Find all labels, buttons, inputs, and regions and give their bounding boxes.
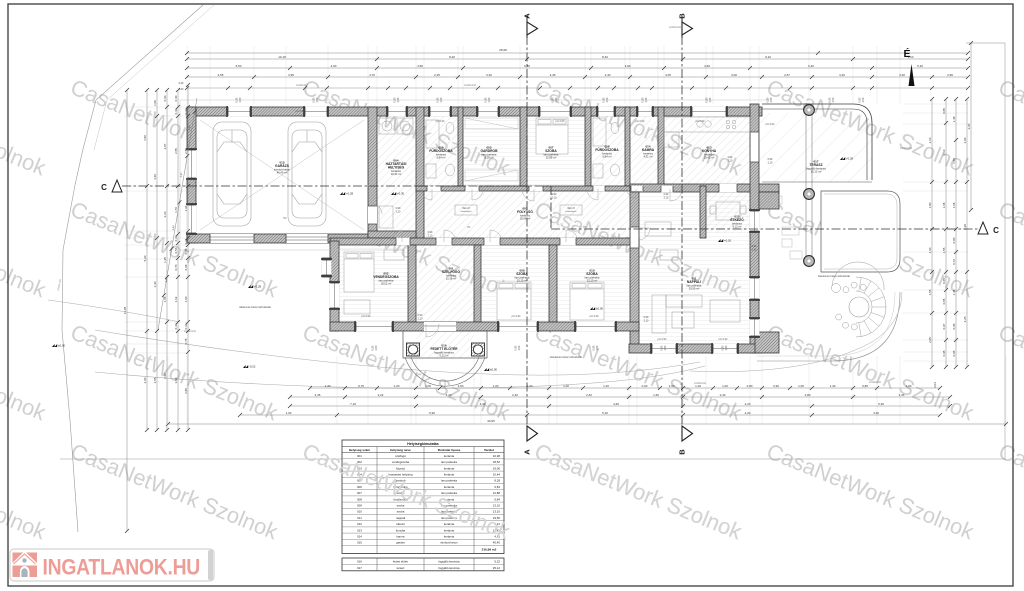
svg-text:fagyálló kerámia: fagyálló kerámia (438, 566, 459, 570)
svg-text:FEDETT ELŐTÉR: FEDETT ELŐTÉR (430, 346, 458, 351)
svg-text:2,80: 2,80 (805, 393, 811, 397)
svg-text:É: É (903, 47, 910, 60)
svg-text:Helyiség neve: Helyiség neve (390, 448, 411, 452)
svg-text:3,30: 3,30 (486, 73, 492, 77)
svg-text:25,12 m²: 25,12 m² (811, 170, 822, 174)
svg-text:VENDÉGSZOBA: VENDÉGSZOBA (373, 274, 399, 279)
svg-text:13,10: 13,10 (493, 504, 501, 508)
svg-text:1,50: 1,50 (596, 345, 599, 350)
svg-text:B: B (678, 13, 687, 19)
svg-text:2,10: 2,10 (396, 210, 401, 213)
svg-text:±0,00: ±0,00 (58, 343, 65, 347)
svg-text:13,10 m²: 13,10 m² (517, 279, 528, 283)
svg-text:1,50: 1,50 (316, 97, 319, 102)
svg-text:016: 016 (357, 560, 362, 564)
svg-text:1,48: 1,48 (952, 289, 956, 295)
svg-text:simított beton: simított beton (440, 541, 458, 545)
svg-text:0,30: 0,30 (174, 108, 178, 114)
svg-text:1,50: 1,50 (725, 345, 728, 350)
svg-text:4,70: 4,70 (369, 73, 375, 77)
svg-text:6,84 m²: 6,84 m² (436, 156, 445, 160)
svg-text:+0,30: +0,30 (397, 191, 405, 195)
svg-text:011: 011 (357, 516, 362, 520)
svg-text:0,95: 0,95 (942, 350, 946, 356)
svg-text:1,50: 1,50 (664, 345, 667, 350)
svg-text:4,50: 4,50 (417, 64, 423, 68)
svg-text:kamra: kamra (396, 535, 404, 539)
svg-text:felülvilágító: felülvilágító (566, 210, 578, 213)
svg-text:3,50: 3,50 (143, 135, 147, 141)
svg-text:1,50: 1,50 (606, 97, 609, 102)
svg-text:pm 0,90: pm 0,90 (590, 315, 599, 318)
svg-text:pm 0,90: pm 0,90 (696, 120, 705, 123)
svg-text:szoba: szoba (397, 504, 405, 508)
svg-text:1,62: 1,62 (174, 296, 178, 302)
svg-text:2,00: 2,00 (458, 384, 464, 388)
svg-text:kiselemes beton térburkolat: kiselemes beton térburkolat (818, 274, 850, 278)
svg-text:szoba: szoba (397, 510, 405, 514)
svg-text:+0,20: +0,20 (724, 238, 732, 242)
svg-text:1,50: 1,50 (375, 345, 378, 350)
svg-text:3,96: 3,96 (967, 123, 971, 129)
svg-text:kerámia: kerámia (444, 466, 455, 470)
svg-text:13,10 m²: 13,10 m² (587, 279, 598, 283)
svg-text:0,72: 0,72 (952, 259, 956, 265)
svg-text:±0,00: ±0,00 (596, 306, 603, 310)
svg-text:zöldterület: zöldterület (899, 146, 912, 150)
svg-text:6,40: 6,40 (808, 64, 814, 68)
svg-text:Akelemes beton térburkolat: Akelemes beton térburkolat (239, 305, 271, 309)
svg-text:19,06: 19,06 (493, 466, 501, 470)
svg-text:4,05: 4,05 (665, 73, 671, 77)
svg-text:1,20: 1,20 (695, 384, 701, 388)
svg-text:pm 0,90: pm 0,90 (719, 338, 728, 341)
svg-text:2,25: 2,25 (434, 73, 440, 77)
svg-text:0,30: 0,30 (174, 323, 178, 329)
svg-text:Helyiség szám: Helyiség szám (349, 448, 371, 452)
svg-text:0,30: 0,30 (184, 108, 188, 114)
svg-text:1,00: 1,00 (493, 384, 499, 388)
svg-text:0,80: 0,80 (747, 384, 753, 388)
svg-text:0,60: 0,60 (163, 95, 167, 101)
svg-text:10,44: 10,44 (493, 473, 501, 477)
svg-text:1,60: 1,60 (928, 247, 932, 253)
svg-text:1,68: 1,68 (952, 202, 956, 208)
svg-text:3,22: 3,22 (378, 393, 384, 397)
svg-text:6,90: 6,90 (429, 411, 435, 415)
svg-text:013: 013 (357, 528, 362, 532)
svg-text:1,50: 1,50 (488, 97, 491, 102)
svg-text:kerámia: kerámia (444, 473, 455, 477)
svg-text:VELUX: VELUX (462, 207, 470, 210)
svg-text:4,40: 4,40 (153, 174, 157, 180)
svg-text:zöldterület: zöldterület (668, 25, 681, 29)
svg-text:3,45: 3,45 (550, 73, 556, 77)
svg-text:2,62: 2,62 (586, 393, 592, 397)
svg-text:lam.parketta: lam.parketta (441, 479, 457, 483)
svg-text:SZOBA: SZOBA (586, 272, 598, 276)
svg-text:+0,28: +0,28 (346, 191, 354, 195)
svg-text:lam.parketta: lam.parketta (441, 460, 457, 464)
svg-text:pm 0,90: pm 0,90 (436, 120, 445, 123)
svg-text:012: 012 (357, 522, 362, 526)
svg-text:3,95: 3,95 (947, 73, 953, 77)
svg-text:3,60: 3,60 (143, 377, 147, 383)
svg-text:pm 0,90: pm 0,90 (296, 110, 305, 113)
svg-text:étkező: étkező (396, 522, 405, 526)
svg-text:1,55: 1,55 (928, 289, 932, 295)
svg-text:3,00: 3,00 (731, 73, 737, 77)
svg-text:pm 0,90: pm 0,90 (362, 315, 371, 318)
svg-text:4,30: 4,30 (873, 411, 879, 415)
svg-text:1,25: 1,25 (163, 257, 167, 263)
svg-text:3,46: 3,46 (899, 393, 905, 397)
svg-text:46,40 m²: 46,40 m² (277, 171, 288, 175)
svg-text:1,60: 1,60 (653, 393, 659, 397)
svg-text:FÜRDŐSZOBA: FÜRDŐSZOBA (429, 148, 453, 153)
svg-text:HELYISÉG: HELYISÉG (388, 165, 405, 170)
svg-text:2,10: 2,10 (664, 196, 669, 199)
svg-text:19,06 m²: 19,06 m² (520, 217, 531, 221)
svg-text:2,55: 2,55 (184, 148, 188, 154)
svg-text:4,40: 4,40 (480, 402, 486, 406)
svg-text:5,30: 5,30 (878, 402, 884, 406)
svg-text:kerámia: kerámia (444, 454, 455, 458)
svg-text:KONYHA: KONYHA (702, 149, 717, 153)
svg-text:6,84 m²: 6,84 m² (602, 155, 611, 159)
svg-text:1,50: 1,50 (397, 97, 400, 102)
svg-text:5,22 m²: 5,22 m² (439, 354, 448, 358)
svg-text:010: 010 (357, 510, 362, 514)
svg-text:3,55: 3,55 (218, 73, 224, 77)
svg-text:4,60: 4,60 (331, 64, 337, 68)
svg-text:0,56: 0,56 (174, 247, 178, 253)
svg-text:10,38: 10,38 (493, 454, 501, 458)
svg-text:±0,00: ±0,00 (490, 367, 497, 371)
svg-text:GARDROB: GARDROB (480, 149, 498, 153)
svg-text:2,10: 2,10 (446, 393, 452, 397)
svg-text:3,20: 3,20 (839, 73, 845, 77)
svg-text:1,60: 1,60 (184, 205, 188, 211)
svg-text:2,10: 2,10 (644, 319, 649, 322)
svg-text:SZOBA: SZOBA (516, 272, 528, 276)
svg-text:2,10: 2,10 (752, 248, 757, 251)
svg-text:10,18: 10,18 (278, 55, 286, 59)
svg-text:NAPPALI: NAPPALI (687, 280, 701, 284)
svg-text:11,08: 11,08 (123, 307, 127, 315)
svg-text:18,52 m²: 18,52 m² (381, 282, 392, 286)
svg-text:8,40: 8,40 (602, 55, 608, 59)
svg-text:10,38 m²: 10,38 m² (446, 277, 457, 281)
svg-text:3,95: 3,95 (288, 73, 294, 77)
svg-text:0,75: 0,75 (358, 384, 364, 388)
svg-text:1,50: 1,50 (832, 97, 835, 102)
svg-text:INGATLANOK.HU: INGATLANOK.HU (43, 555, 201, 579)
svg-text:216,99 m2: 216,99 m2 (482, 548, 497, 552)
svg-text:0,48: 0,48 (184, 248, 188, 254)
svg-text:1,40: 1,40 (830, 384, 836, 388)
svg-text:+0,28: +0,28 (846, 156, 854, 160)
svg-text:9,12 m²: 9,12 m² (732, 225, 741, 229)
svg-text:3,30: 3,30 (153, 281, 157, 287)
svg-text:0,90: 0,90 (642, 384, 648, 388)
svg-text:kerámia: kerámia (444, 528, 455, 532)
svg-text:0,78: 0,78 (184, 338, 188, 344)
svg-text:fagyálló kerámia: fagyálló kerámia (438, 560, 459, 564)
svg-text:5,10: 5,10 (602, 411, 608, 415)
svg-text:2,67: 2,67 (784, 73, 790, 77)
svg-text:kerámia: kerámia (444, 485, 455, 489)
svg-text:1,50: 1,50 (952, 158, 956, 164)
svg-text:1,00: 1,00 (425, 384, 431, 388)
svg-text:terasz: terasz (397, 566, 405, 570)
svg-text:3,90: 3,90 (163, 373, 167, 379)
svg-text:5,20: 5,20 (143, 255, 147, 261)
svg-text:3,00: 3,00 (963, 137, 967, 143)
svg-text:1,40: 1,40 (325, 384, 331, 388)
svg-text:0,70: 0,70 (174, 264, 178, 270)
svg-text:1,00: 1,00 (722, 384, 728, 388)
svg-text:1,55: 1,55 (942, 247, 946, 253)
svg-text:pm 0,90: pm 0,90 (556, 120, 565, 123)
svg-text:8,20: 8,20 (449, 55, 455, 59)
svg-text:1,48: 1,48 (952, 116, 956, 122)
svg-text:0,80: 0,80 (952, 237, 956, 243)
svg-text:1,03: 1,03 (286, 411, 292, 415)
svg-text:2,40: 2,40 (512, 393, 518, 397)
svg-text:1,50: 1,50 (239, 97, 242, 102)
svg-text:12,88: 12,88 (493, 491, 501, 495)
svg-text:ÉTKEZŐ: ÉTKEZŐ (730, 217, 744, 222)
svg-text:0,88: 0,88 (942, 108, 946, 114)
svg-text:2,10: 2,10 (552, 196, 557, 199)
svg-text:SZOBA: SZOBA (545, 149, 557, 153)
svg-text:FOLYOSÓ: FOLYOSÓ (517, 209, 533, 214)
svg-text:4,20: 4,20 (745, 402, 751, 406)
svg-text:0,30: 0,30 (184, 323, 188, 329)
svg-text:25,12: 25,12 (493, 566, 501, 570)
svg-text:VELUX: VELUX (567, 207, 575, 210)
svg-text:1,40: 1,40 (603, 384, 609, 388)
svg-text:0,65: 0,65 (942, 278, 946, 284)
svg-text:12,88 m²: 12,88 m² (546, 156, 557, 160)
svg-text:2,40: 2,40 (605, 73, 611, 77)
svg-text:pm 0,90: pm 0,90 (512, 315, 521, 318)
svg-text:TERASZ: TERASZ (809, 163, 822, 167)
svg-text:2,10: 2,10 (163, 211, 167, 217)
svg-text:1,50: 1,50 (709, 97, 712, 102)
svg-text:1,90: 1,90 (906, 384, 912, 388)
svg-text:pm 0,90: pm 0,90 (658, 338, 667, 341)
svg-text:fedett előtér: fedett előtér (393, 560, 408, 564)
svg-text:1,00: 1,00 (798, 384, 804, 388)
svg-text:KAMRA: KAMRA (642, 148, 655, 152)
svg-text:3,04: 3,04 (933, 382, 937, 388)
svg-text:1,50: 1,50 (518, 345, 521, 350)
svg-text:1,00: 1,00 (563, 384, 569, 388)
svg-text:15,42 m²: 15,42 m² (704, 156, 715, 160)
svg-text:4,20: 4,20 (745, 411, 751, 415)
svg-text:zöldterület: zöldterület (463, 83, 476, 87)
svg-text:0,25: 0,25 (184, 238, 188, 244)
svg-text:0,80: 0,80 (862, 384, 868, 388)
svg-text:014: 014 (357, 535, 362, 539)
svg-text:2,87: 2,87 (163, 143, 167, 149)
svg-text:0,97: 0,97 (942, 323, 946, 329)
svg-text:6,84: 6,84 (494, 485, 500, 489)
svg-text:vendégszoba: vendégszoba (392, 460, 410, 464)
svg-text:8,28 m²: 8,28 m² (484, 156, 493, 160)
svg-text:1,50: 1,50 (645, 97, 648, 102)
svg-text:2,80: 2,80 (184, 388, 188, 394)
svg-text:015: 015 (357, 541, 362, 545)
svg-text:1,50: 1,50 (440, 97, 443, 102)
svg-text:2,05: 2,05 (928, 337, 932, 343)
svg-text:kerámia: kerámia (444, 535, 455, 539)
svg-text:1,00: 1,00 (153, 100, 157, 106)
svg-text:33,50 m²: 33,50 m² (689, 287, 700, 291)
svg-text:1,20: 1,20 (394, 384, 400, 388)
svg-text:1,50: 1,50 (555, 97, 558, 102)
svg-text:-0,02: -0,02 (249, 364, 256, 368)
svg-text:2,10: 2,10 (428, 234, 433, 237)
svg-text:1,00: 1,00 (669, 384, 675, 388)
svg-text:szélfogó: szélfogó (395, 454, 406, 458)
svg-text:5,50: 5,50 (236, 64, 242, 68)
svg-text:felülvilágító: felülvilágító (461, 210, 473, 213)
svg-text:0,90: 0,90 (773, 384, 779, 388)
svg-text:0,30: 0,30 (174, 235, 178, 241)
svg-text:A: A (523, 449, 532, 455)
svg-text:009: 009 (357, 504, 362, 508)
svg-text:zöldterület: zöldterület (868, 380, 881, 384)
svg-text:9,10: 9,10 (765, 55, 771, 59)
svg-text:SZÉLFOGÓ: SZÉLFOGÓ (442, 269, 461, 274)
svg-text:6,84: 6,84 (494, 497, 500, 501)
svg-text:7,10: 7,10 (350, 402, 356, 406)
svg-text:001: 001 (357, 454, 362, 458)
svg-text:C: C (101, 183, 107, 192)
svg-text:4,60: 4,60 (704, 64, 710, 68)
svg-text:kiselemes beton térburkolat: kiselemes beton térburkolat (550, 355, 582, 359)
svg-text:1,68: 1,68 (942, 202, 946, 208)
svg-text:3,60: 3,60 (174, 377, 178, 383)
svg-text:2,40: 2,40 (720, 393, 726, 397)
svg-text:30,95: 30,95 (487, 419, 495, 423)
svg-text:nappali: nappali (396, 516, 406, 520)
svg-text:GARÁZS: GARÁZS (275, 163, 290, 168)
svg-text:28,98: 28,98 (499, 48, 507, 52)
svg-text:0,60: 0,60 (174, 95, 178, 101)
svg-text:1,60: 1,60 (184, 296, 188, 302)
svg-text:0,40: 0,40 (179, 82, 184, 85)
svg-text:2,10: 2,10 (418, 317, 423, 320)
svg-text:folyosó: folyosó (396, 466, 406, 470)
svg-text:017: 017 (357, 566, 362, 570)
svg-text:pm 0,90: pm 0,90 (766, 123, 775, 126)
svg-text:1,65: 1,65 (163, 296, 167, 302)
svg-text:0,95: 0,95 (952, 350, 956, 356)
svg-text:0,98: 0,98 (952, 323, 956, 329)
svg-text:8,28: 8,28 (494, 479, 500, 483)
svg-text:1,50: 1,50 (770, 97, 773, 102)
svg-text:3,90: 3,90 (625, 64, 631, 68)
svg-text:Burkolat típusa: Burkolat típusa (438, 448, 461, 452)
svg-text:2,10: 2,10 (768, 161, 773, 164)
svg-text:Helyiségkimutatás: Helyiségkimutatás (407, 442, 439, 446)
svg-text:+0,28: +0,28 (254, 284, 262, 288)
svg-text:B: B (678, 449, 687, 455)
svg-text:4,25: 4,25 (963, 316, 967, 322)
svg-text:2,10: 2,10 (728, 159, 733, 162)
svg-text:2,55: 2,55 (174, 148, 178, 154)
svg-text:3,10: 3,10 (928, 137, 932, 143)
svg-text:3,20: 3,20 (899, 73, 905, 77)
svg-text:C: C (993, 226, 999, 235)
svg-text:10,44 m²: 10,44 m² (391, 172, 402, 176)
svg-text:pm 0,90: pm 0,90 (636, 120, 645, 123)
svg-text:0,68: 0,68 (184, 264, 188, 270)
svg-text:FÜRDŐSZOBA: FÜRDŐSZOBA (595, 147, 619, 152)
svg-text:008: 008 (357, 497, 362, 501)
svg-text:5,22: 5,22 (494, 560, 500, 564)
svg-text:4,60: 4,60 (613, 402, 619, 406)
svg-text:007: 007 (357, 491, 362, 495)
svg-text:18,52: 18,52 (493, 460, 501, 464)
svg-text:1,50: 1,50 (862, 97, 865, 102)
svg-text:1,70: 1,70 (174, 207, 178, 213)
svg-text:5,10: 5,10 (917, 64, 923, 68)
svg-text:2,10: 2,10 (942, 149, 946, 155)
svg-text:garázs: garázs (396, 541, 405, 545)
svg-text:0,85: 0,85 (942, 298, 946, 304)
svg-text:2,45: 2,45 (315, 393, 321, 397)
svg-text:4,31 m²: 4,31 m² (643, 155, 652, 159)
svg-text:3,55: 3,55 (153, 377, 157, 383)
svg-text:Terület: Terület (484, 448, 494, 452)
svg-text:konyha: konyha (396, 528, 406, 532)
svg-text:A: A (523, 13, 532, 19)
svg-text:1,20: 1,20 (527, 384, 533, 388)
svg-text:1,80: 1,80 (928, 202, 932, 208)
